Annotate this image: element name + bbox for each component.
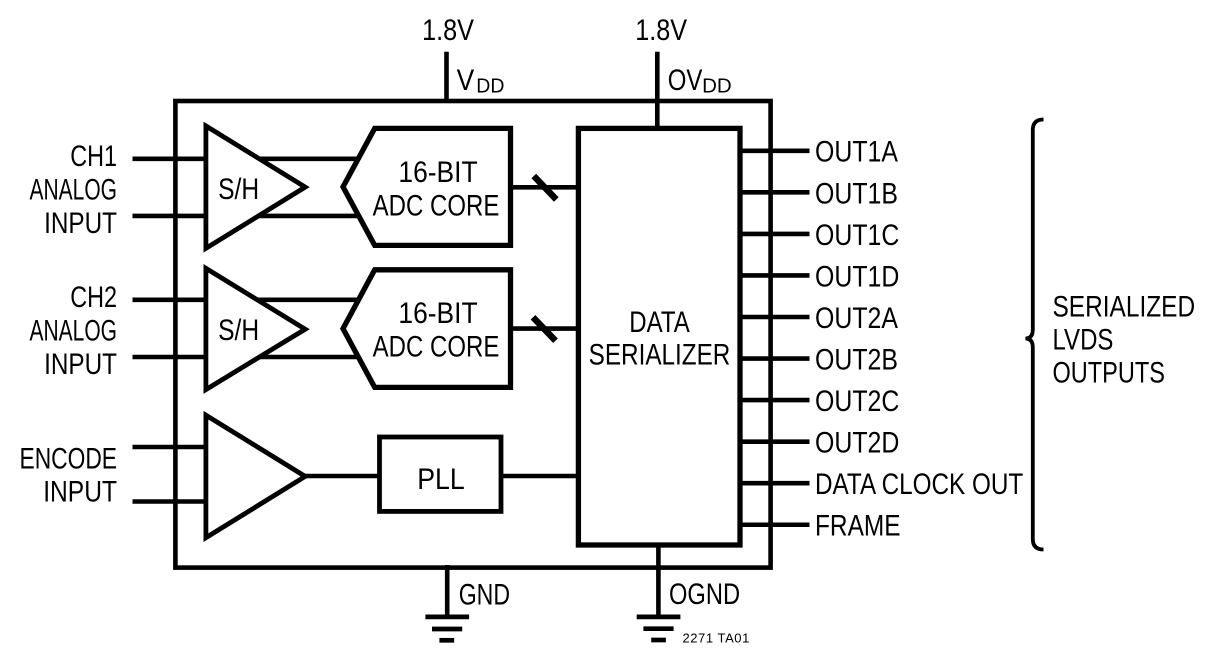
- svg-text:ADC CORE: ADC CORE: [373, 329, 500, 363]
- svg-text:1.8V: 1.8V: [422, 13, 474, 47]
- svg-text:OGND: OGND: [669, 577, 740, 610]
- svg-text:INPUT: INPUT: [44, 347, 117, 381]
- svg-text:OUT1A: OUT1A: [815, 134, 899, 168]
- svg-text:ANALOG: ANALOG: [30, 315, 117, 347]
- svg-text:OUT2D: OUT2D: [815, 425, 899, 459]
- svg-text:DATA: DATA: [629, 304, 690, 338]
- svg-text:SERIALIZED: SERIALIZED: [1053, 289, 1196, 323]
- svg-text:FRAME: FRAME: [815, 508, 901, 542]
- svg-text:OUT1D: OUT1D: [815, 259, 899, 293]
- svg-text:INPUT: INPUT: [43, 474, 117, 508]
- svg-text:S/H: S/H: [218, 313, 259, 347]
- svg-text:GND: GND: [459, 577, 510, 611]
- svg-text:DD: DD: [476, 75, 504, 98]
- svg-text:2271 TA01: 2271 TA01: [683, 631, 750, 646]
- svg-text:PLL: PLL: [417, 463, 464, 497]
- svg-text:16-BIT: 16-BIT: [398, 154, 477, 188]
- svg-text:CH1: CH1: [70, 139, 117, 172]
- svg-text:OUT2A: OUT2A: [815, 301, 899, 335]
- svg-text:S/H: S/H: [218, 171, 259, 205]
- svg-text:OV: OV: [668, 63, 703, 97]
- svg-text:1.8V: 1.8V: [635, 13, 687, 47]
- svg-text:ENCODE: ENCODE: [20, 441, 117, 475]
- svg-text:DATA CLOCK OUT: DATA CLOCK OUT: [815, 467, 1024, 501]
- svg-text:OUTPUTS: OUTPUTS: [1053, 356, 1165, 389]
- svg-text:LVDS: LVDS: [1053, 322, 1114, 356]
- svg-text:ANALOG: ANALOG: [30, 174, 117, 206]
- svg-text:16-BIT: 16-BIT: [398, 296, 477, 330]
- svg-text:SERIALIZER: SERIALIZER: [589, 337, 731, 371]
- svg-text:CH2: CH2: [70, 280, 117, 313]
- svg-text:ADC CORE: ADC CORE: [373, 188, 500, 222]
- svg-text:DD: DD: [702, 75, 732, 98]
- svg-text:V: V: [457, 63, 475, 97]
- svg-text:OUT1C: OUT1C: [815, 218, 899, 252]
- svg-text:INPUT: INPUT: [44, 206, 117, 240]
- svg-text:OUT2C: OUT2C: [815, 384, 899, 418]
- svg-text:OUT1B: OUT1B: [815, 176, 898, 210]
- svg-text:OUT2B: OUT2B: [815, 342, 898, 376]
